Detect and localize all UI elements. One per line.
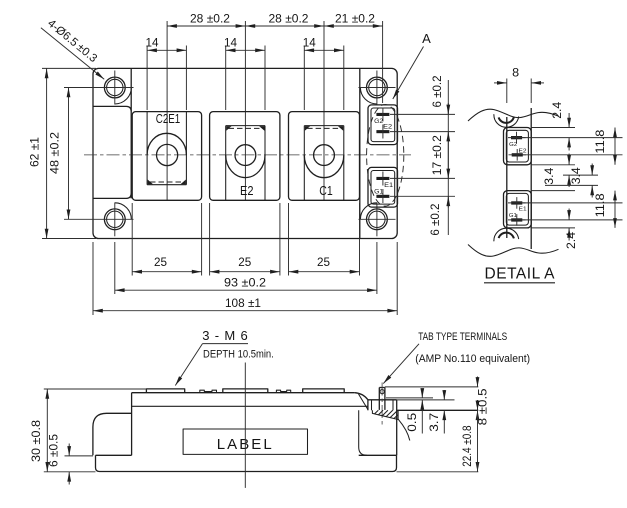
svg-text:TAB TYPE TERMINALS: TAB TYPE TERMINALS (418, 331, 507, 343)
top break wave (468, 109, 559, 121)
dimension 3.4 right (detail) (571, 164, 592, 198)
svg-text:DETAIL A: DETAIL A (485, 266, 556, 283)
side centerline (244, 363, 246, 488)
dimension 25 x3 (132, 203, 359, 276)
baseplate (96, 455, 397, 471)
svg-text:DEPTH 10.5min.: DEPTH 10.5min. (203, 349, 274, 361)
dimension 14 x3 (146, 37, 344, 110)
inner cavity edge (359, 410, 367, 455)
vertical pad centerlines (167, 21, 383, 200)
svg-text:C1: C1 (319, 183, 333, 198)
strip edges (507, 108, 531, 249)
mounting hole bottom-right (359, 203, 396, 237)
svg-text:14: 14 (224, 37, 238, 49)
seat line (397, 409, 479, 411)
dimension 3.4 left (detail) (544, 154, 569, 188)
detail block upper (504, 128, 532, 165)
leader 4-dia6.5 (41, 18, 104, 80)
svg-text:21 ±0.2: 21 ±0.2 (335, 13, 375, 25)
detail extension lines (522, 128, 622, 228)
svg-text:E1: E1 (519, 207, 527, 213)
dimension 11.8 x2 (detail) (595, 128, 615, 228)
svg-text:28 ±0.2: 28 ±0.2 (190, 13, 230, 25)
terminal cell C2E1 (132, 112, 201, 201)
svg-text:11.8: 11.8 (595, 193, 607, 217)
dimension 62 (30, 68, 97, 238)
tab terminal block lower (top view) (368, 167, 398, 207)
svg-text:E2: E2 (519, 148, 527, 154)
svg-text:LABEL: LABEL (217, 436, 272, 453)
dimension 28 / 28 / 21 (167, 13, 383, 26)
tab terminal block upper (top view) (368, 105, 398, 145)
mounting hole bottom-left (64, 203, 134, 237)
dimension 22.4 (462, 410, 477, 472)
small bump 1 (200, 390, 217, 393)
dimension 8 (detail) (494, 68, 544, 104)
svg-text:A: A (422, 31, 431, 46)
DETAIL A title (484, 266, 555, 283)
module body outline (93, 68, 397, 238)
case top (132, 393, 368, 410)
svg-text:4-Ø6.5 ±0.3: 4-Ø6.5 ±0.3 (45, 18, 99, 65)
leader A (393, 31, 431, 99)
svg-text:25: 25 (317, 257, 330, 269)
terminal cell E2 (210, 112, 280, 201)
svg-text:E2: E2 (240, 183, 254, 198)
svg-text:108 ±1: 108 ±1 (225, 298, 261, 310)
svg-text:6 ±0.2: 6 ±0.2 (430, 204, 442, 236)
svg-text:2.4: 2.4 (566, 231, 578, 249)
right inner wall (359, 68, 361, 238)
leader 3-M6 (175, 328, 273, 386)
svg-text:(AMP No.110 equivalent): (AMP No.110 equivalent) (415, 353, 530, 365)
LABEL plate (183, 429, 307, 454)
svg-text:14: 14 (303, 37, 317, 49)
svg-text:0.5: 0.5 (407, 413, 419, 432)
svg-text:22.4 ±0.8: 22.4 ±0.8 (462, 425, 474, 466)
right extension lines (385, 387, 478, 472)
svg-text:28 ±0.2: 28 ±0.2 (269, 13, 309, 25)
svg-text:14: 14 (146, 37, 160, 49)
terminal cell C1 (289, 112, 360, 201)
small bump 2 (276, 390, 290, 393)
case corner curve (398, 419, 410, 440)
dimension 108 (93, 242, 397, 315)
svg-text:6 ±0.2: 6 ±0.2 (432, 76, 444, 108)
svg-text:17 ±0.2: 17 ±0.2 (432, 135, 444, 175)
mounting hole boss arcs (115, 88, 377, 220)
svg-text:62 ±1: 62 ±1 (30, 137, 42, 167)
dimension 48 (50, 88, 69, 220)
svg-text:8: 8 (512, 68, 519, 80)
hatch wedge (372, 410, 398, 419)
mounting hole top-right (359, 71, 396, 105)
svg-text:E1: E1 (384, 183, 394, 189)
mounting hole top-left (64, 71, 134, 105)
dimension 2.4 bottom (detail) (566, 209, 578, 250)
top boss arcs (494, 114, 519, 127)
svg-text:3-M6: 3-M6 (202, 328, 248, 343)
svg-text:11.8: 11.8 (595, 130, 607, 154)
svg-text:48 ±0.2: 48 ±0.2 (50, 132, 62, 174)
horizontal module centerline (84, 154, 411, 156)
svg-text:G1: G1 (509, 213, 517, 219)
dimension 0.5 (407, 389, 422, 434)
bottom break wave (468, 245, 559, 257)
svg-text:2.4: 2.4 (552, 101, 564, 119)
dimension 30 (31, 389, 146, 472)
case outline left flange (93, 393, 132, 456)
svg-text:C2E1: C2E1 (156, 111, 181, 126)
bottom boss arcs (494, 228, 519, 241)
left clamp notch (93, 68, 131, 198)
screw pad 1 (146, 389, 184, 393)
svg-text:30 ±0.8: 30 ±0.8 (31, 420, 43, 462)
dimension 3.7 (429, 390, 444, 434)
svg-text:3.7: 3.7 (429, 413, 441, 432)
svg-text:25: 25 (238, 257, 251, 269)
screw pad 2 (223, 389, 268, 393)
svg-text:E2: E2 (383, 125, 393, 131)
dimension 6 / 17 / 6 right of top view (390, 76, 455, 236)
leader TAB TYPE TERMINALS (383, 331, 530, 383)
svg-text:3.4: 3.4 (571, 167, 583, 185)
svg-text:G1: G1 (374, 190, 384, 196)
dimension 6 (baseplate) (49, 434, 93, 485)
svg-text:25: 25 (154, 257, 167, 269)
tab post (side) (379, 383, 385, 428)
detail block lower (504, 191, 532, 228)
svg-text:G2: G2 (509, 142, 517, 148)
terminal housing (side) (368, 400, 397, 456)
svg-text:3.4: 3.4 (544, 167, 556, 185)
dimension 2.4 top (detail) (552, 101, 569, 150)
dimension 93 (115, 242, 377, 294)
svg-text:93 ±0.2: 93 ±0.2 (224, 277, 266, 289)
dimension 8 +-0.5 (478, 377, 490, 426)
svg-text:6 ±0.5: 6 ±0.5 (49, 434, 61, 467)
screw pad 3 (303, 389, 345, 393)
detail indicator dashed ellipse (367, 105, 404, 207)
svg-text:8 ±0.5: 8 ±0.5 (478, 388, 490, 425)
